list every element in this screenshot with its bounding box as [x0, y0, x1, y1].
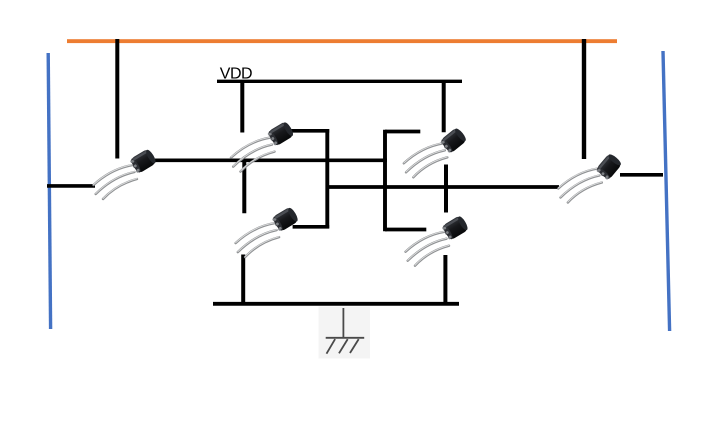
svg-text:VDD: VDD — [220, 65, 252, 82]
